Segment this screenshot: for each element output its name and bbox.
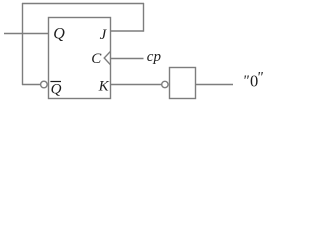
output level label "0" [243, 70, 264, 91]
svg-text:Q: Q [51, 82, 62, 98]
wire feedback top horizontal [22, 3, 144, 5]
gate G1 body [170, 68, 196, 99]
wire C clock input (cp) [111, 58, 144, 60]
svg-text:cp: cp [147, 49, 162, 65]
wire K input [111, 84, 162, 86]
wire feedback left vertical [22, 3, 24, 85]
wire G1 output [196, 84, 234, 86]
inversion bubble on Q-bar output [41, 81, 48, 88]
svg-text:": " [243, 73, 250, 89]
svg-text:K: K [98, 78, 110, 94]
wire feedback bottom to Q-bar bubble [22, 84, 40, 86]
wire J input stub (right) [111, 30, 144, 32]
flip-flop U1 body [49, 18, 111, 99]
clock dynamic-input triangle on C [104, 51, 110, 65]
svg-text:Q: Q [53, 26, 65, 43]
overline of Q-bar [50, 81, 61, 83]
wire feedback right vertical [143, 3, 145, 32]
inversion bubble at gate G1 input [162, 81, 168, 87]
wire Q output (left) [4, 33, 49, 35]
svg-text:C: C [91, 51, 102, 67]
svg-text:J: J [100, 27, 108, 43]
svg-text:": " [257, 70, 264, 86]
